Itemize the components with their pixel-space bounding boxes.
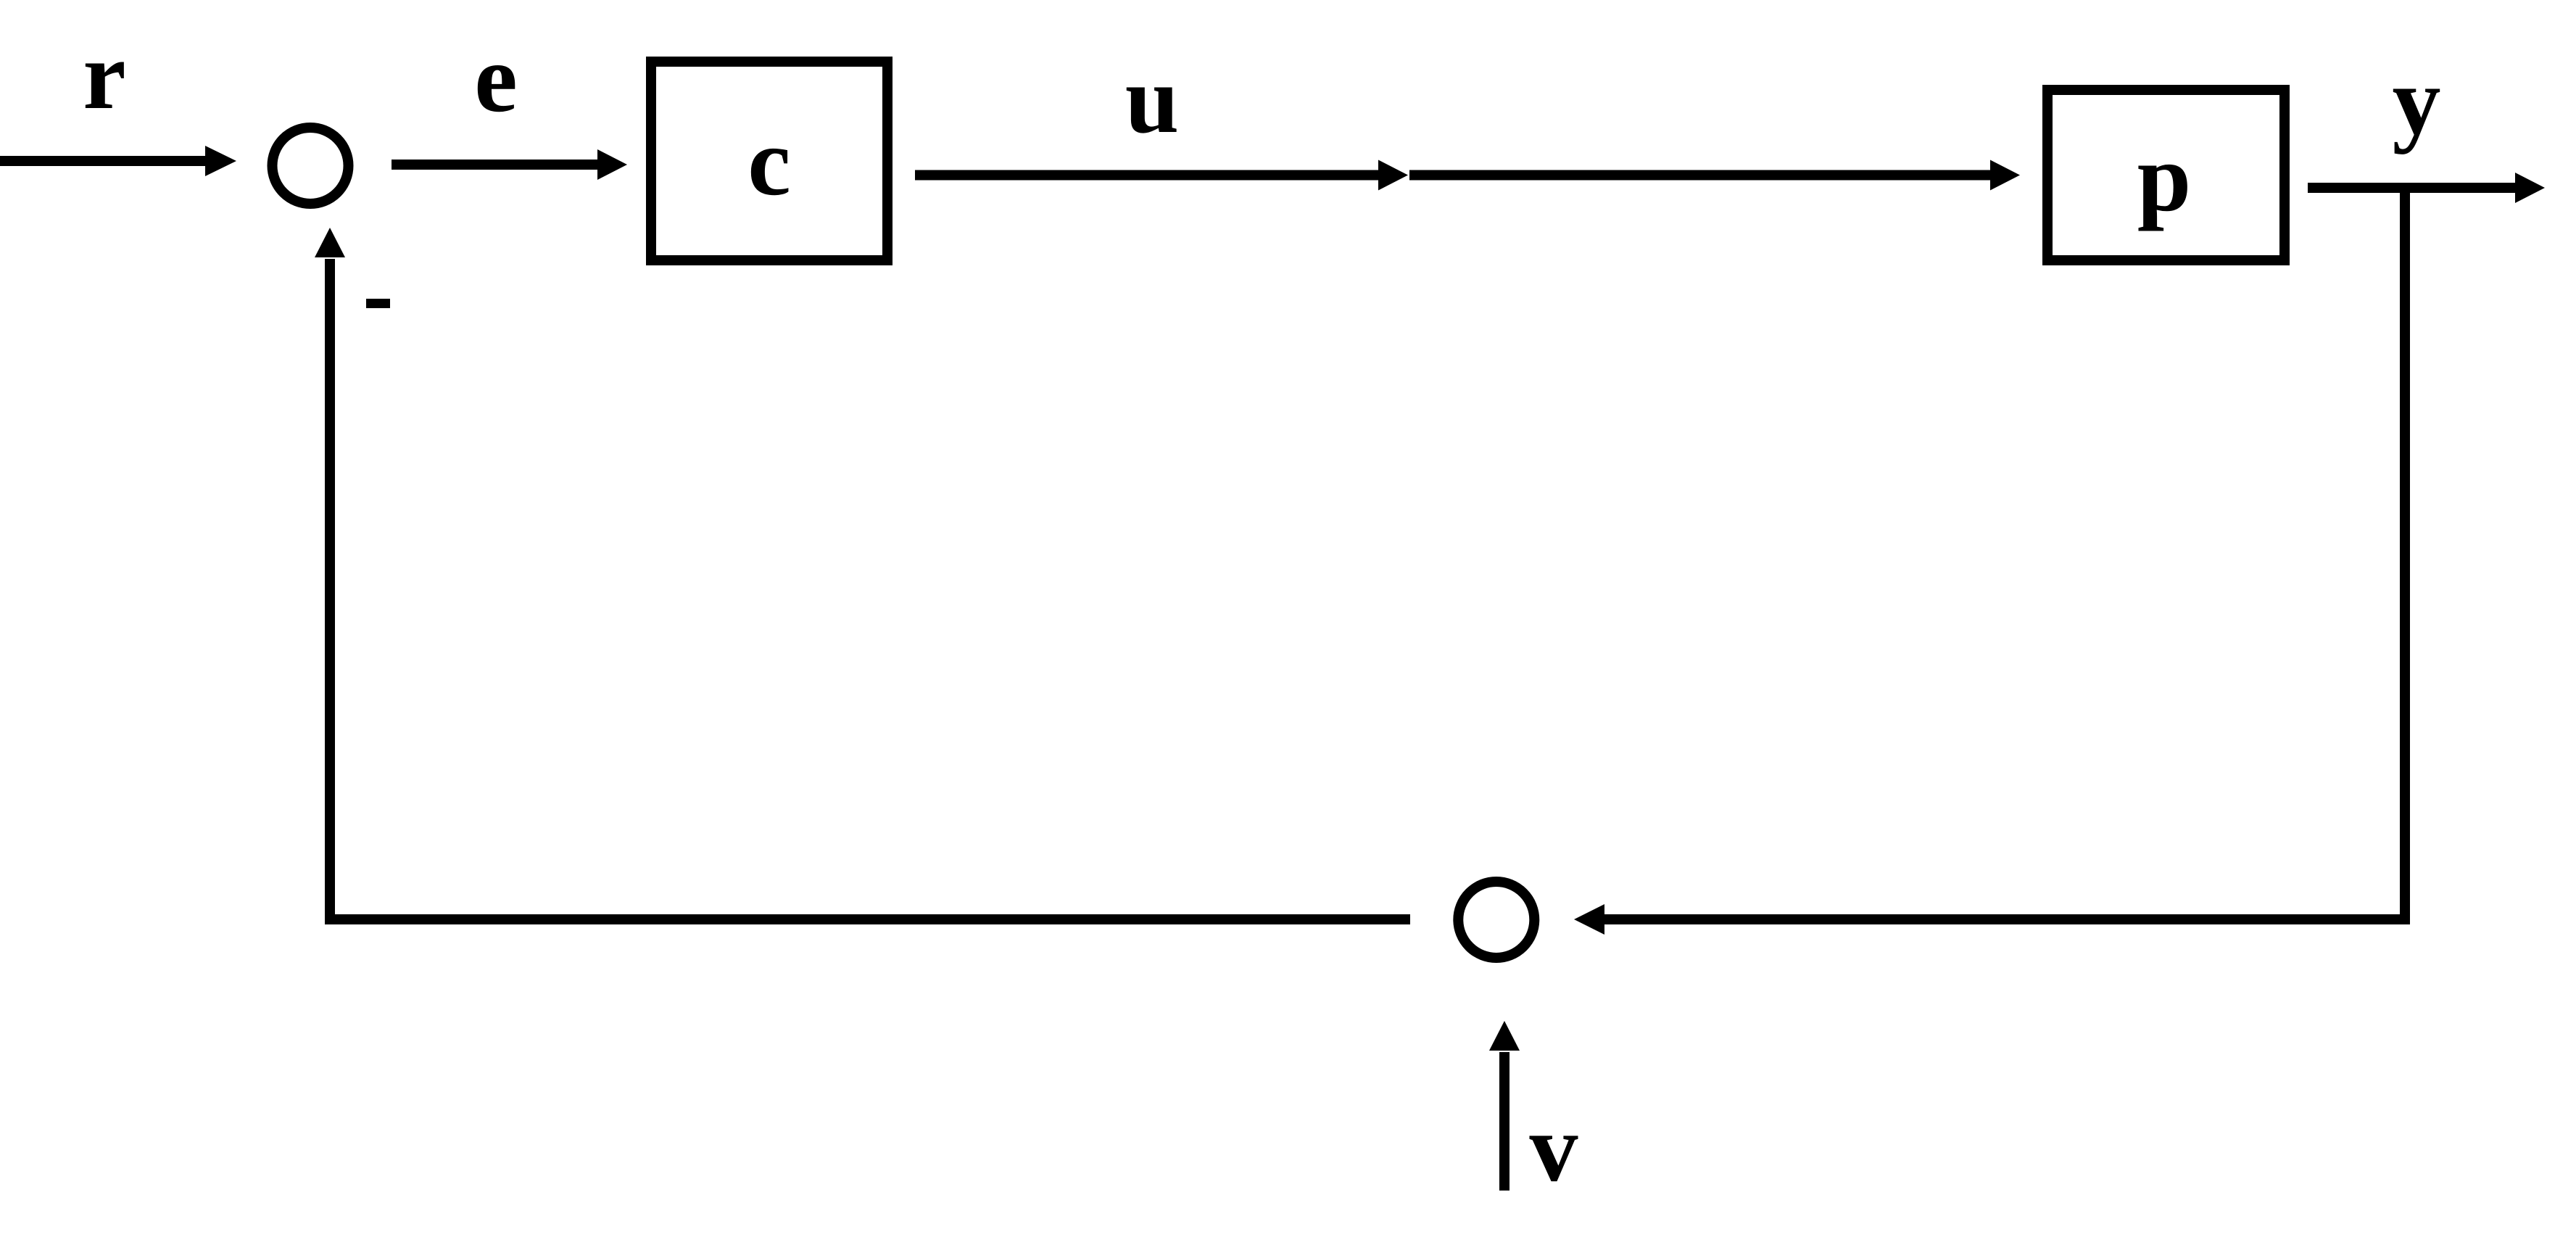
svg-text:c: c xyxy=(747,108,790,215)
svg-text:y: y xyxy=(2393,47,2441,154)
svg-text:p: p xyxy=(2137,124,2192,231)
svg-text:u: u xyxy=(1125,46,1180,153)
svg-text:r: r xyxy=(83,22,125,129)
svg-text:v: v xyxy=(1530,1094,1578,1201)
svg-text:e: e xyxy=(474,25,517,132)
